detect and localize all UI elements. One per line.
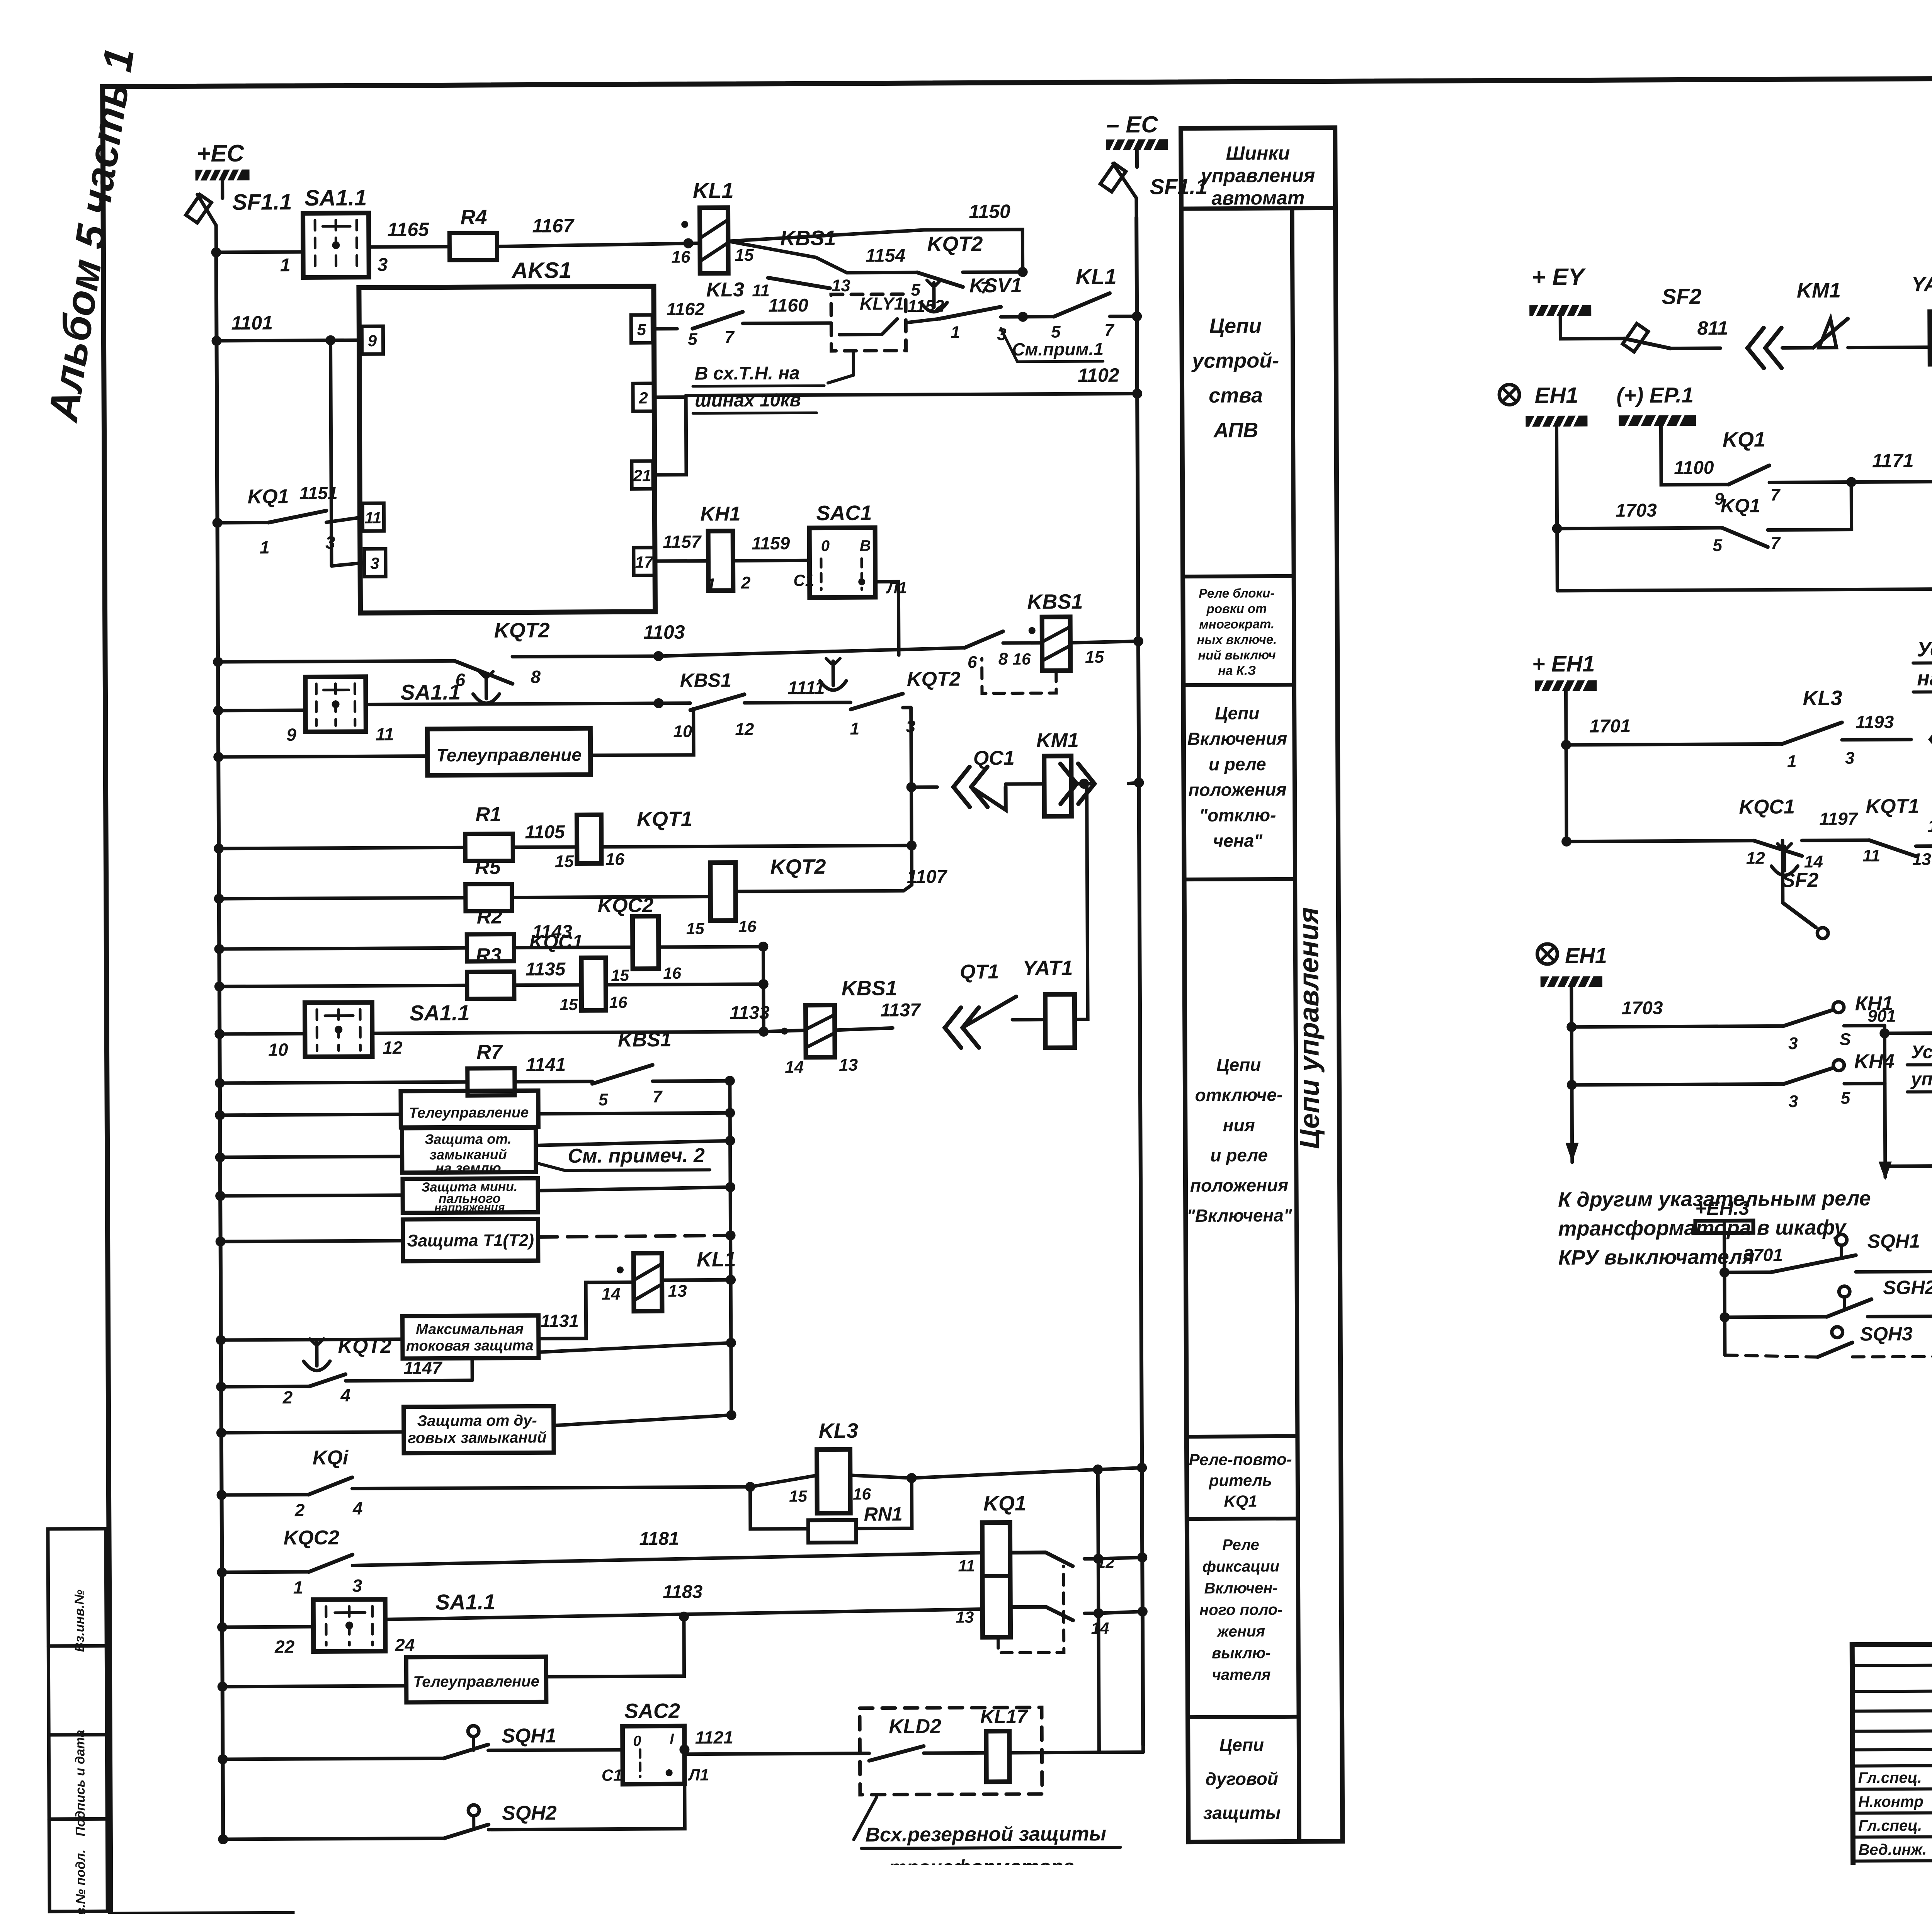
coil YAC1 <box>1930 311 1932 364</box>
relay coil KQC2 <box>633 916 659 969</box>
svg-text:Включен-: Включен- <box>1204 1580 1277 1597</box>
svg-text:1147: 1147 <box>404 1357 443 1378</box>
svg-text:KBS1: KBS1 <box>618 1029 672 1051</box>
svg-text:16: 16 <box>853 1485 871 1503</box>
svg-text:SA1.1: SA1.1 <box>435 1590 496 1614</box>
svg-text:1131: 1131 <box>541 1311 579 1331</box>
svg-text:KL1: KL1 <box>697 1248 736 1271</box>
svg-text:См.прим.1: См.прим.1 <box>1012 339 1104 359</box>
svg-text:KL3: KL3 <box>706 279 745 301</box>
box Телеуправление <box>427 728 591 776</box>
svg-text:16: 16 <box>605 850 625 869</box>
svg-text:ния: ния <box>1223 1115 1255 1135</box>
row KQC1/KQT1 y=2180 <box>1566 841 1754 842</box>
wire 1165 <box>369 245 449 249</box>
svg-text:9: 9 <box>368 332 377 350</box>
svg-text:S: S <box>1840 1030 1851 1049</box>
svg-text:0: 0 <box>821 537 830 554</box>
svg-text:R1: R1 <box>475 803 501 826</box>
row R7/KBS1(5-7) y=2790 <box>215 1078 225 1088</box>
resistor R2 <box>467 934 514 962</box>
svg-text:KQT1: KQT1 <box>637 808 692 831</box>
svg-text:KQT2: KQT2 <box>338 1335 391 1358</box>
svg-text:Шинки: Шинки <box>1226 142 1290 164</box>
svg-text:"отклю-: "отклю- <box>1199 805 1276 825</box>
svg-text:Установлены: Установлены <box>1917 637 1932 661</box>
note Всх.резервной защиты трансформатора <box>854 1797 877 1840</box>
wire 1703 #2 <box>1571 1026 1783 1027</box>
svg-text:ровки от: ровки от <box>1206 601 1267 616</box>
svg-text:1181: 1181 <box>639 1529 679 1549</box>
svg-text:1183: 1183 <box>663 1582 703 1602</box>
svg-text:Инженер: Инженер <box>1859 1865 1927 1883</box>
left description column box <box>1181 128 1342 1842</box>
box Максимальная токовая защита <box>216 1335 226 1345</box>
svg-text:1: 1 <box>1787 752 1797 771</box>
svg-text:SQH1: SQH1 <box>1867 1230 1920 1252</box>
relay coil KQ1 (11-12/13-14) <box>982 1522 1010 1637</box>
svg-text:5: 5 <box>637 320 646 338</box>
svg-text:2: 2 <box>282 1387 293 1407</box>
contact QT1 <box>962 997 1016 1028</box>
svg-text:KQT2: KQT2 <box>907 668 961 691</box>
svg-text:См. примеч. 2: См. примеч. 2 <box>568 1145 705 1168</box>
svg-text:автомат: автомат <box>1211 187 1304 209</box>
svg-text:QC1: QC1 <box>973 747 1015 769</box>
svg-text:KQi: KQi <box>313 1447 349 1469</box>
row Телеуправление 2 y=2873 <box>215 1110 225 1120</box>
row Защита от замыканий y=2982 <box>215 1152 225 1162</box>
svg-text:чена": чена" <box>1213 830 1263 851</box>
svg-text:1159: 1159 <box>752 533 790 553</box>
svg-text:KH1: KH1 <box>700 503 740 525</box>
wire 1150 branch <box>975 270 1023 274</box>
svg-text:RN1: RN1 <box>864 1503 903 1525</box>
wire 1100 <box>1661 426 1728 485</box>
row SA1.1 (10-12) y=2663 <box>214 1029 224 1039</box>
relay coil KBS1 (14-13) <box>806 1005 835 1057</box>
svg-text:KQT2: KQT2 <box>770 855 826 879</box>
contact SQH3 (dashed row) <box>1832 1327 1843 1338</box>
svg-text:шинах 10кв: шинах 10кв <box>695 390 801 411</box>
AKS1 pin 17 <box>634 548 655 575</box>
svg-text:ритель: ритель <box>1209 1471 1272 1490</box>
svg-text:+ЕН.3: +ЕН.3 <box>1695 1197 1750 1219</box>
svg-text:SF2: SF2 <box>1782 869 1819 891</box>
resistor R7 <box>468 1068 515 1096</box>
svg-text:SAC2: SAC2 <box>624 1699 680 1723</box>
svg-text:KLD2: KLD2 <box>889 1715 941 1738</box>
svg-text:3701: 3701 <box>1743 1245 1783 1265</box>
svg-text:1107: 1107 <box>907 867 948 887</box>
svg-text:KQ1: KQ1 <box>1224 1492 1257 1510</box>
bus EH1 #2 <box>1541 976 1602 987</box>
down arrow <box>1566 1143 1579 1162</box>
svg-text:Вз.инв.№: Вз.инв.№ <box>72 1590 87 1652</box>
AKS1 pin 2 <box>633 383 654 411</box>
svg-text:KQ1: KQ1 <box>983 1492 1026 1515</box>
svg-text:KM1: KM1 <box>1797 279 1841 302</box>
switch SA1.1 (9-11) <box>305 677 366 732</box>
svg-text:4: 4 <box>340 1385 350 1405</box>
svg-text:"Включена": "Включена" <box>1187 1205 1293 1226</box>
svg-text:SF1.1: SF1.1 <box>232 189 292 215</box>
KBS1 dashed self-loop <box>982 658 1056 694</box>
circle-plus EH1 <box>1499 384 1519 405</box>
svg-text:5: 5 <box>1713 536 1722 555</box>
svg-text:901: 901 <box>1867 1007 1896 1026</box>
svg-text:11: 11 <box>1862 846 1880 865</box>
svg-text:SQH3: SQH3 <box>1860 1323 1913 1345</box>
svg-text:7: 7 <box>653 1087 663 1106</box>
margin block Вз.инв.№ / Подпись и дата / Инв.№ подл. <box>48 1529 107 1912</box>
svg-text:Реле-повто-: Реле-повто- <box>1189 1450 1292 1469</box>
contact KBS1 (6-8) <box>964 631 1003 648</box>
svg-text:15: 15 <box>686 920 705 938</box>
svg-text:1: 1 <box>850 719 860 738</box>
dashed box KLD2/KL17 <box>860 1708 1042 1795</box>
svg-text:KH4: KH4 <box>1854 1050 1895 1073</box>
contact KQ1 (2-4) <box>308 1477 352 1494</box>
svg-text:14: 14 <box>1804 852 1823 871</box>
svg-text:EH1: EH1 <box>1535 383 1578 408</box>
svg-text:11: 11 <box>376 724 394 744</box>
contact KLD2 <box>869 1746 923 1761</box>
bracket vertical R2/R3 rows <box>762 947 765 1032</box>
svg-text:ний выключ: ний выключ <box>1198 648 1276 662</box>
coil YAT1 <box>1012 1018 1045 1021</box>
contact KQT2 (6-8) with anchor <box>454 661 512 684</box>
svg-text:5: 5 <box>1841 1089 1850 1108</box>
svg-text:Цепи управления: Цепи управления <box>1293 907 1325 1149</box>
contact KL3 (1-3) <box>1782 723 1842 744</box>
svg-text:1199: 1199 <box>1927 816 1932 836</box>
svg-text:13: 13 <box>839 1056 858 1075</box>
svg-text:KL1: KL1 <box>693 178 734 202</box>
row KQ1 (2-4) y=3841 <box>216 1490 226 1500</box>
resistor R1 <box>465 834 513 861</box>
svg-text:811: 811 <box>1697 317 1728 339</box>
KQ1 dashed <box>998 1566 1064 1653</box>
svg-text:1193: 1193 <box>1855 712 1894 732</box>
relay coil KL1 lower-left <box>634 1253 662 1311</box>
svg-text:KLY1: KLY1 <box>860 293 904 313</box>
left rail <box>216 252 223 1839</box>
right collector v2 <box>730 1081 731 1415</box>
wire 1154 <box>847 271 917 275</box>
relay coil KH1 <box>708 531 733 590</box>
contact KQ1 (9-7) <box>1728 465 1769 484</box>
svg-text:1160: 1160 <box>768 295 808 316</box>
svg-text:1100: 1100 <box>1674 457 1714 478</box>
svg-text:1150: 1150 <box>969 201 1010 222</box>
svg-text:5: 5 <box>599 1090 608 1109</box>
row SA1.1 (22-24) 1183 y=4198 <box>217 1622 227 1632</box>
svg-text:5: 5 <box>688 330 697 349</box>
svg-text:AKS1: AKS1 <box>511 258 571 283</box>
svg-text:Гл.спец.: Гл.спец. <box>1858 1817 1922 1835</box>
circle-plus EH1 #2 <box>1537 944 1557 964</box>
svg-text:Защита от ду-: Защита от ду- <box>417 1412 537 1429</box>
svg-text:дуговой: дуговой <box>1205 1769 1278 1789</box>
svg-text:10: 10 <box>268 1039 288 1060</box>
contact KQ1 (5-7) <box>1722 527 1768 547</box>
svg-text:на К.З: на К.З <box>1218 663 1256 677</box>
wire 1703 row <box>1556 427 1557 591</box>
contact KQC1 (12-14) + anchor <box>1754 840 1802 856</box>
svg-text:KQ1: KQ1 <box>248 485 289 508</box>
svg-text:2: 2 <box>741 573 751 592</box>
chevron QT1 << <box>945 1008 961 1048</box>
svg-text:16: 16 <box>671 248 690 267</box>
svg-text:12: 12 <box>735 720 754 739</box>
svg-text:15: 15 <box>1085 648 1104 667</box>
relay coil KL17 <box>986 1731 1010 1782</box>
chevron QC1 << <box>953 767 969 807</box>
svg-text:1121: 1121 <box>695 1727 733 1747</box>
svg-text:7: 7 <box>724 328 735 347</box>
AKS1 pin 21 <box>632 461 653 489</box>
switch SAC1 <box>810 528 876 598</box>
svg-text:Включения: Включения <box>1187 728 1287 749</box>
contact KQT2 (5-7) with delay <box>917 272 963 287</box>
row Защита Т1(Т2) y=3200 <box>216 1236 226 1247</box>
row KH4 contact y=2810 <box>1567 1080 1577 1090</box>
svg-text:4: 4 <box>352 1498 363 1518</box>
svg-text:1703: 1703 <box>1622 998 1663 1019</box>
svg-text:16: 16 <box>663 964 682 982</box>
vertical feeder to QC1 row <box>911 707 912 885</box>
svg-text:1137: 1137 <box>880 1000 921 1020</box>
svg-text:1701: 1701 <box>1589 716 1631 736</box>
svg-text:9: 9 <box>286 724 296 745</box>
wire to KBS1 contact <box>728 241 847 273</box>
svg-text:1135: 1135 <box>526 959 566 980</box>
svg-text:Цепи: Цепи <box>1216 1054 1261 1075</box>
svg-text:1171: 1171 <box>1872 450 1914 471</box>
svg-text:SA1.1: SA1.1 <box>410 1000 470 1025</box>
svg-text:R7: R7 <box>476 1041 503 1063</box>
wire 1160 <box>743 321 831 325</box>
svg-text:и реле: и реле <box>1209 754 1266 774</box>
svg-text:ных включе.: ных включе. <box>1197 632 1277 647</box>
svg-text:15: 15 <box>555 852 574 871</box>
wire 901 <box>1879 1028 1889 1038</box>
svg-text:Телеуправление: Телеуправление <box>413 1673 539 1690</box>
svg-text:3: 3 <box>1789 1092 1798 1111</box>
svg-text:KL1: KL1 <box>1076 264 1117 289</box>
svg-text:KSV1: KSV1 <box>969 274 1022 297</box>
row Телеуправление 1 y=1946 <box>213 752 223 762</box>
svg-text:SGH2: SGH2 <box>1883 1277 1932 1299</box>
SAC1 out down to 1103 row <box>875 582 899 655</box>
svg-text:Цепи: Цепи <box>1215 703 1260 723</box>
contact KM1 with flag <box>1782 346 1813 349</box>
contact KQ1 (1-3) <box>268 511 326 523</box>
svg-text:1154: 1154 <box>866 245 905 266</box>
svg-text:13: 13 <box>668 1282 687 1301</box>
relay coil KL1 <box>700 207 728 273</box>
svg-text:1167: 1167 <box>532 215 575 236</box>
svg-text:7: 7 <box>1770 534 1781 553</box>
svg-text:напряжения: напряжения <box>434 1201 505 1214</box>
svg-text:В сх.Т.Н. на: В сх.Т.Н. на <box>695 363 800 384</box>
svg-text:EH1: EH1 <box>1565 943 1607 968</box>
svg-text:чателя: чателя <box>1212 1666 1271 1684</box>
svg-text:KQT2: KQT2 <box>494 619 550 642</box>
switch SAC2 <box>622 1726 685 1784</box>
svg-text:KL17: KL17 <box>980 1706 1029 1728</box>
svg-text:– EC: – EC <box>1106 111 1158 138</box>
relay coil KQT2 <box>710 862 736 920</box>
relay coil KL3 + resistor RN1 parallel <box>817 1449 850 1513</box>
svg-text:SQH2: SQH2 <box>502 1802 557 1825</box>
contact KQT1 (11-13) <box>1869 840 1916 857</box>
row R5/KQT2 y=2313 <box>214 894 224 904</box>
svg-text:KQ1: KQ1 <box>1723 428 1765 451</box>
svg-text:15: 15 <box>735 246 754 265</box>
svg-text:KBS1: KBS1 <box>1027 590 1083 614</box>
resistor R5 <box>466 884 512 912</box>
svg-text:SQH1: SQH1 <box>502 1725 556 1747</box>
svg-text:16: 16 <box>738 917 757 935</box>
switch SA1.1 (1-3) <box>303 213 369 277</box>
wire row EY <box>1560 316 1624 339</box>
svg-text:SA1.1: SA1.1 <box>304 185 367 211</box>
svg-text:многократ.: многократ. <box>1199 617 1274 631</box>
svg-text:11: 11 <box>752 281 770 300</box>
svg-text:1: 1 <box>706 575 716 594</box>
relay coil KBS1 <box>1042 617 1071 670</box>
svg-text:24: 24 <box>395 1635 415 1655</box>
coil KM1 <box>1044 756 1071 816</box>
svg-text:13: 13 <box>1912 850 1931 869</box>
svg-text:ства: ства <box>1209 384 1263 407</box>
svg-text:14: 14 <box>602 1284 621 1303</box>
svg-text:KQT2: KQT2 <box>927 232 983 256</box>
wire 1171 <box>1851 482 1932 482</box>
svg-text:1101: 1101 <box>231 312 273 333</box>
svg-text:1: 1 <box>280 255 291 276</box>
svg-text:Н.контр: Н.контр <box>1858 1793 1923 1811</box>
svg-text:KBS1: KBS1 <box>680 669 732 691</box>
svg-text:8: 8 <box>998 650 1008 668</box>
svg-text:Реле: Реле <box>1222 1536 1259 1553</box>
svg-text:Защита Т1(Т2): Защита Т1(Т2) <box>407 1231 534 1250</box>
svg-text:положения: положения <box>1190 1175 1288 1196</box>
bus +EC <box>196 170 250 181</box>
contact SQH1 <box>1725 1270 1771 1274</box>
svg-text:1165: 1165 <box>387 219 429 240</box>
svg-text:R3: R3 <box>476 944 502 967</box>
svg-text:6: 6 <box>968 653 977 672</box>
contact SQH1 <box>468 1726 479 1736</box>
contact KL3 (5-7) from AKS1 pin5 <box>654 327 677 330</box>
svg-text:13: 13 <box>832 276 850 295</box>
rail -EC vertical <box>1136 218 1143 1745</box>
svg-text:22: 22 <box>274 1636 295 1656</box>
svg-text:21: 21 <box>633 466 651 485</box>
svg-text:15: 15 <box>560 995 578 1014</box>
contact KL1 (5-7) <box>1023 315 1054 318</box>
svg-text:отключе-: отключе- <box>1195 1085 1283 1105</box>
svg-text:Инв.№ подл.: Инв.№ подл. <box>73 1849 88 1932</box>
relay box KLY1 (dashed) <box>831 294 906 351</box>
svg-text:KQC1: KQC1 <box>1739 796 1795 818</box>
breaker SF1.1 right <box>1135 150 1139 167</box>
svg-text:R2: R2 <box>477 906 503 928</box>
svg-text:1102: 1102 <box>1078 364 1119 386</box>
relay block AKS1 <box>359 286 655 613</box>
svg-text:1105: 1105 <box>525 822 565 842</box>
svg-text:положения: положения <box>1188 779 1286 800</box>
resistor R3 <box>467 972 514 999</box>
contact KBS1 (5-7) <box>592 1065 653 1084</box>
row R3/KQC1 y=2540 <box>214 981 224 992</box>
breaker SF1.1 <box>221 180 224 198</box>
svg-text:1197: 1197 <box>1819 808 1859 828</box>
row Защита от дуговых замыканий y=3695 <box>216 1428 226 1438</box>
svg-text:фиксации: фиксации <box>1202 1558 1279 1575</box>
switch SA1.1 (10-12) <box>305 1002 372 1057</box>
contact KBS1 (11-13) <box>768 277 830 289</box>
svg-text:+ EY: + EY <box>1532 264 1587 291</box>
svg-text:устрой-: устрой- <box>1191 349 1279 372</box>
svg-text:R5: R5 <box>475 856 501 879</box>
svg-text:SAC1: SAC1 <box>816 502 872 525</box>
svg-text:YAT1: YAT1 <box>1022 956 1073 980</box>
svg-text:7: 7 <box>1104 321 1115 340</box>
-EC rail lower segment <box>1141 1745 1145 1752</box>
svg-text:Черт.кас.: Черт.кас. <box>1859 1889 1932 1906</box>
svg-text:14: 14 <box>785 1058 804 1077</box>
wire 1102 <box>686 394 1137 396</box>
wire +EH1 down <box>1566 691 1566 842</box>
svg-text:ного поло-: ного поло- <box>1199 1601 1283 1619</box>
contact KBS1 (10-12) <box>659 701 690 705</box>
svg-text:15: 15 <box>611 966 629 984</box>
row Защита мин напряжения y=3082 <box>215 1191 225 1201</box>
contact KQC2 (1-3) <box>309 1554 352 1571</box>
svg-text:Вед.инж.: Вед.инж. <box>1858 1841 1927 1859</box>
contact SF2 below <box>1781 840 1785 903</box>
resistor R4 <box>449 233 497 260</box>
svg-text:16: 16 <box>1013 650 1031 668</box>
svg-text:АПВ: АПВ <box>1213 418 1259 442</box>
svg-text:1: 1 <box>951 323 960 342</box>
svg-text:1162: 1162 <box>667 299 705 319</box>
svg-text:1157: 1157 <box>663 532 702 552</box>
svg-text:говых замыканий: говых замыканий <box>408 1429 546 1447</box>
row SA1.1 (9-11) y=1826 <box>213 706 223 716</box>
svg-text:жения: жения <box>1216 1623 1265 1640</box>
row R1/KQT1 y=2183 <box>214 844 224 854</box>
svg-text:+ EH1: + EH1 <box>1532 651 1595 677</box>
svg-text:12: 12 <box>383 1037 403 1058</box>
svg-text:SF1.1: SF1.1 <box>1150 174 1208 199</box>
svg-text:Защита от.: Защита от. <box>425 1131 512 1147</box>
svg-text:1703: 1703 <box>1616 500 1657 521</box>
svg-text:управления: управления <box>1200 165 1315 187</box>
bus +EY <box>1529 305 1591 316</box>
svg-text:I: I <box>670 1731 674 1747</box>
svg-text:17: 17 <box>635 553 654 571</box>
row SQH1 y=4540 <box>218 1754 228 1764</box>
AKS1 pin 11 <box>362 503 384 531</box>
row SQH2 y=4747 <box>218 1834 228 1844</box>
title block outer <box>1852 1641 1932 1906</box>
svg-text:KQC1: KQC1 <box>529 931 583 953</box>
